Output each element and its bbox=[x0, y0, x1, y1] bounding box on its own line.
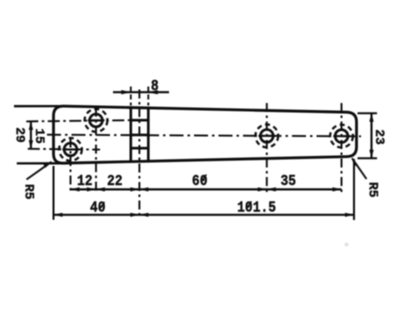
hinge barrel knuckle tick 3 bbox=[131, 147, 149, 150]
svg-text:12: 12 bbox=[77, 173, 93, 190]
hole H1 inner circle bbox=[90, 114, 103, 127]
svg-text:22: 22 bbox=[107, 173, 123, 190]
hole H2 horizontal centre line bbox=[28, 148, 100, 151]
node: main centre line (dash-dot) bbox=[47, 135, 361, 137]
R5 leader left bbox=[27, 162, 52, 180]
row 2 extension line right (x=354) bbox=[353, 159, 355, 220]
slashed zero of 60 bbox=[201, 175, 206, 183]
svg-text:R5: R5 bbox=[365, 182, 380, 198]
hole H3 dashed circle bbox=[255, 124, 278, 147]
row 1 bowtie at 139.4 (22/60) bbox=[130, 187, 139, 191]
row 2 bowtie at 139.4 (40/101.5) bbox=[130, 213, 139, 217]
dimension 8: right arrow bbox=[148, 90, 158, 94]
scan speck bbox=[345, 243, 349, 247]
dimension 8: extension line right bbox=[147, 87, 149, 106]
row 2 extension line left (x=53.5) bbox=[53, 166, 55, 220]
hole H2 dashed circle bbox=[59, 138, 82, 161]
row 1 bowtie at 95.9 (12/22) bbox=[87, 187, 96, 191]
hole H2 inner circle bbox=[64, 143, 77, 156]
svg-text:29: 29 bbox=[13, 127, 28, 143]
hole H3 inner circle bbox=[260, 130, 273, 143]
hinge pin axis (dashed vertical) bbox=[138, 90, 140, 216]
hole H3 centre bar bbox=[259, 135, 276, 137]
hole H4 vertical centre line bbox=[341, 103, 343, 194]
dimension 15: line with arrows bbox=[30, 121, 32, 148]
hole H2 centre bar bbox=[63, 149, 80, 151]
hinge barrel left line bbox=[130, 107, 133, 161]
dimension 8: line bbox=[113, 91, 169, 93]
part outline (hinge leaf, tapered, rounded corners R5) bbox=[54, 106, 357, 163]
hole H4 centre bar bbox=[333, 135, 350, 137]
R5 leader right bbox=[352, 158, 367, 179]
svg-text:R5: R5 bbox=[21, 184, 36, 200]
wire: top edge extension line (29 dim, left) bbox=[14, 105, 64, 107]
dimension 23: extension line bottom bbox=[358, 157, 378, 159]
hinge barrel knuckle tick 2 bbox=[131, 134, 149, 137]
dimension 8: extension line left bbox=[130, 87, 132, 106]
slashed zero of 40 bbox=[99, 202, 104, 210]
row 1 arrow at 341.5 (right end of 35) bbox=[333, 187, 342, 191]
dimension 8: left arrow bbox=[121, 90, 131, 94]
svg-text:40: 40 bbox=[90, 200, 106, 217]
wire: bottom edge extension line (29 dim, left) bbox=[17, 162, 63, 164]
row 1 arrow at 70.5 (left end of 12) bbox=[71, 187, 80, 191]
dimension row 2: line bbox=[54, 214, 355, 216]
hinge barrel knuckle tick 1 bbox=[131, 119, 149, 122]
hole H2 vertical centre line bbox=[70, 139, 72, 194]
hole H1 horizontal centre line bbox=[26, 120, 130, 121]
svg-text:15: 15 bbox=[32, 128, 47, 144]
hole H1 dashed circle bbox=[85, 109, 108, 132]
hinge barrel right line bbox=[147, 108, 150, 162]
hole H1 centre bar bbox=[88, 119, 105, 121]
slashed zero of 101.5 bbox=[246, 201, 251, 209]
hole H4 inner circle bbox=[335, 130, 348, 143]
row 1 bowtie at 266.8 (60/35) bbox=[258, 187, 267, 191]
row 2 arrow at 354 bbox=[345, 213, 354, 217]
hole H3 vertical centre line bbox=[266, 103, 268, 194]
svg-text:8: 8 bbox=[151, 79, 159, 95]
hole H4 dashed circle bbox=[330, 125, 353, 148]
svg-text:23: 23 bbox=[372, 129, 387, 145]
dimension row 1: line bbox=[71, 188, 342, 190]
hole H1 vertical centre line bbox=[95, 108, 97, 194]
row 2 arrow at 53.5 bbox=[54, 213, 63, 217]
svg-text:101.5: 101.5 bbox=[237, 200, 276, 217]
svg-text:35: 35 bbox=[280, 173, 296, 190]
dimension 23: line with arrows bbox=[370, 113, 372, 158]
dimension 23: extension line top bbox=[358, 112, 378, 114]
